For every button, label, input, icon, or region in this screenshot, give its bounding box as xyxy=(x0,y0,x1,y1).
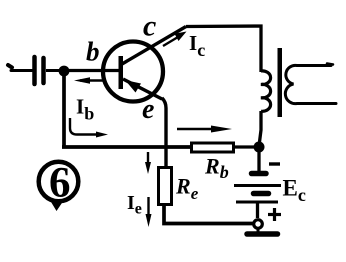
svg-text:Ic: Ic xyxy=(189,31,205,60)
figure number 6 marker xyxy=(39,160,79,212)
arrow: Ic direction along collector xyxy=(163,32,187,47)
wire: Re bottom to node C xyxy=(164,205,254,224)
resistor Rb (horizontal box) xyxy=(192,143,234,152)
transistor VT1: circle xyxy=(103,42,163,102)
svg-text:Ie: Ie xyxy=(127,192,142,218)
svg-text:b: b xyxy=(86,37,100,67)
transistor VT1: collector lead (diagonal) xyxy=(122,27,186,65)
node B: junction dot xyxy=(254,142,265,153)
wire: node B down to battery top plate xyxy=(257,147,260,172)
label minus xyxy=(269,162,280,165)
wire: collector to transformer primary (top run) xyxy=(186,26,261,72)
wire: battery bottom to node C xyxy=(256,202,259,218)
svg-text:c: c xyxy=(143,10,156,43)
ground: stub xyxy=(257,228,260,233)
node C: output terminal (open circle) xyxy=(254,220,263,229)
wire: primary bottom to node B xyxy=(259,111,261,146)
ground: bar xyxy=(247,231,278,237)
resistor Re (vertical box) xyxy=(159,168,172,205)
svg-text:Ib: Ib xyxy=(76,95,94,124)
svg-text:Re: Re xyxy=(175,174,199,204)
wire: bottom horizontal from left to Rb xyxy=(62,145,192,149)
svg-text:Rb: Rb xyxy=(204,154,229,183)
transistor VT1: base bar xyxy=(119,56,124,89)
battery Ec: plate 4 (long thin) xyxy=(236,201,278,204)
wire: capacitor to base node xyxy=(46,69,60,72)
arrow: Ie lower (pointing down) xyxy=(146,197,152,227)
battery Ec: plate 3 (short thick) xyxy=(254,191,269,197)
transformer T1: secondary winding (2 bumps) with leads xyxy=(285,64,336,104)
svg-text:Ec: Ec xyxy=(283,176,306,206)
arrow: current direction above Rb (pointing right) xyxy=(177,126,232,133)
wire: Rb right lead to node B xyxy=(233,145,257,148)
arrow: base current on base wire (pointing left) xyxy=(74,77,104,84)
label plus xyxy=(268,208,281,221)
transformer T1: primary winding (3 bumps) xyxy=(261,71,271,111)
wire: emitter down to Re (crossing bottom wire) xyxy=(162,98,166,167)
arrow: Ib direction (bent, pointing right) xyxy=(70,118,108,138)
svg-text:6: 6 xyxy=(49,160,71,207)
battery Ec: plate 1 (short thick) xyxy=(252,171,267,177)
wire: left vertical from node A xyxy=(62,71,66,147)
wire: input lead with start tick xyxy=(8,65,32,71)
battery Ec: plate 2 (long thin) xyxy=(234,184,281,187)
node A: base junction dot xyxy=(59,66,70,77)
capacitor C1 xyxy=(35,57,44,84)
transformer T1: core bar xyxy=(278,48,283,117)
arrow: Ie upper (pointing down) xyxy=(145,152,151,174)
transistor VT1: emitter lead with PNP arrow xyxy=(123,79,162,99)
wire: base node to transistor base xyxy=(64,69,119,72)
svg-text:e: e xyxy=(142,94,154,125)
